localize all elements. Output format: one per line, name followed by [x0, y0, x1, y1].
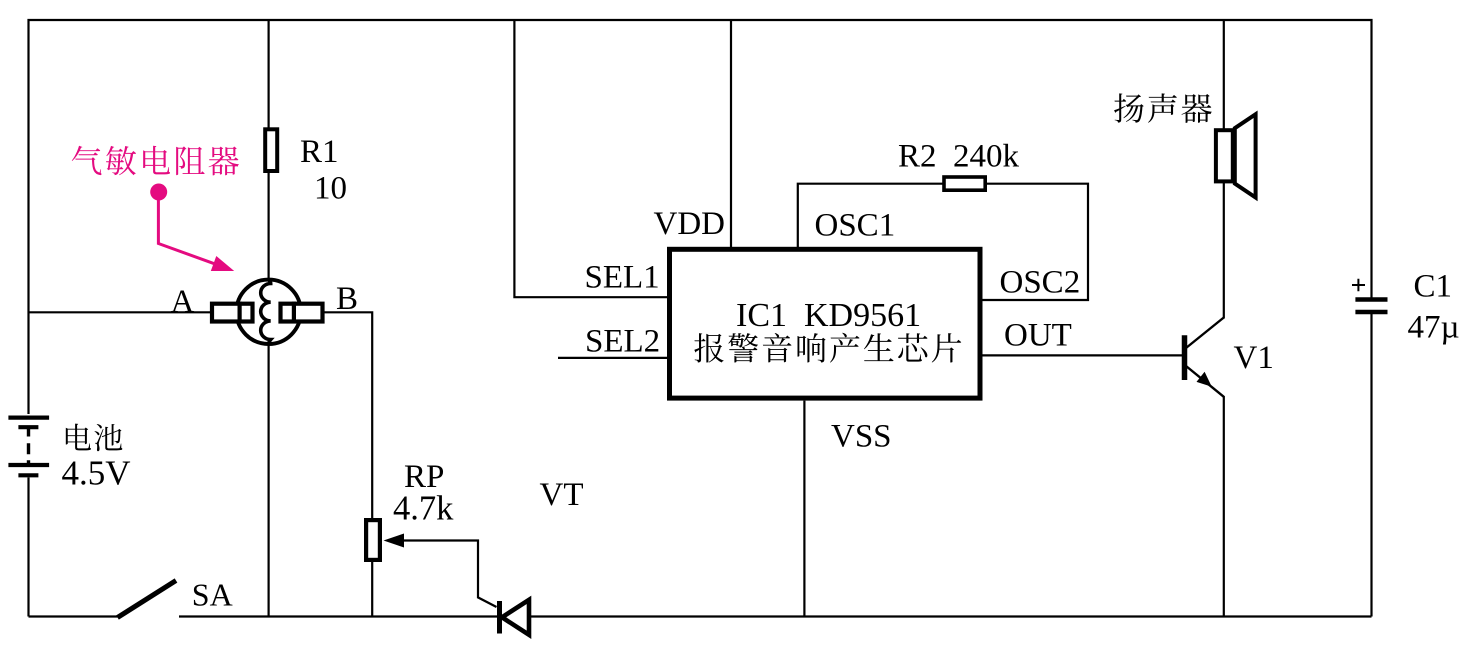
svg-text:VT: VT — [540, 477, 584, 513]
svg-text:SEL2: SEL2 — [585, 324, 660, 360]
svg-text:VSS: VSS — [831, 418, 892, 454]
svg-text:V1: V1 — [1234, 340, 1274, 376]
svg-text:IC1 KD9561: IC1 KD9561 — [736, 297, 921, 334]
svg-text:B: B — [336, 281, 358, 317]
svg-text:A: A — [171, 284, 195, 320]
svg-text:4.5V: 4.5V — [62, 454, 131, 493]
svg-text:R1: R1 — [300, 134, 339, 170]
svg-text:OSC2: OSC2 — [1000, 265, 1081, 301]
svg-text:OUT: OUT — [1004, 318, 1072, 354]
svg-text:47µ: 47µ — [1408, 310, 1460, 346]
svg-text:VDD: VDD — [654, 206, 726, 242]
svg-text:4.7k: 4.7k — [393, 490, 454, 528]
svg-text:R2 240k: R2 240k — [898, 139, 1020, 175]
svg-text:C1: C1 — [1414, 268, 1453, 304]
svg-text:OSC1: OSC1 — [815, 208, 896, 244]
svg-text:SEL1: SEL1 — [585, 259, 660, 295]
svg-text:SA: SA — [192, 576, 233, 612]
svg-text:10: 10 — [314, 171, 347, 207]
